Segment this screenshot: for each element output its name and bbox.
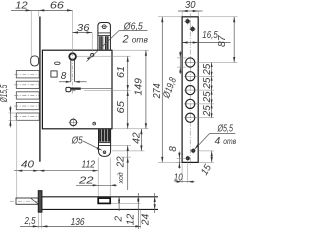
screw hole top A xyxy=(185,19,189,23)
bolt pins x5 xyxy=(16,71,39,121)
body side top line xyxy=(42,196,158,198)
dim 36 xyxy=(73,32,93,34)
svg-text:136: 136 xyxy=(71,217,85,228)
oval slot xyxy=(55,62,61,65)
svg-text:149: 149 xyxy=(134,78,145,96)
big holes x5 xyxy=(186,58,195,122)
dim 136 and 2,5 line xyxy=(20,225,141,227)
screw hole top B xyxy=(190,27,194,31)
svg-text:2: 2 xyxy=(114,216,125,223)
dim 65 xyxy=(127,91,129,129)
svg-text:25: 25 xyxy=(202,91,213,103)
svg-text:12: 12 xyxy=(15,0,28,11)
small screw hole xyxy=(93,122,96,125)
dim 12 side xyxy=(137,193,139,229)
dim 42 xyxy=(112,150,145,152)
svg-text:отв: отв xyxy=(223,137,236,146)
dim 12 and 66 top line xyxy=(11,9,73,11)
dim D19,8 xyxy=(177,57,186,59)
dim 40 xyxy=(14,170,39,172)
plate crossline and 16,5 shelf xyxy=(182,42,230,44)
faceplate side xyxy=(38,191,42,213)
slot bottom ext xyxy=(111,202,141,204)
keyhole lever slot xyxy=(66,87,71,91)
ext pin tip xyxy=(30,10,32,56)
bottom hole xyxy=(70,119,77,126)
dim 274 xyxy=(158,16,182,18)
svg-text:8: 8 xyxy=(61,71,67,82)
svg-text:112: 112 xyxy=(82,159,96,170)
svg-text:ход: ход xyxy=(116,172,125,184)
svg-text:10: 10 xyxy=(174,173,183,184)
body side bottom line xyxy=(42,208,158,210)
svg-text:16,5: 16,5 xyxy=(202,30,218,41)
dim 112 xyxy=(39,170,98,172)
channel width arrows xyxy=(59,81,71,83)
dim 2 side (slot depth) xyxy=(118,197,120,211)
latch band lines xyxy=(98,32,111,34)
screw hole bottom C xyxy=(191,149,195,153)
plate centerline xyxy=(189,14,191,166)
screw hole bottom D xyxy=(186,156,190,160)
dim 61 xyxy=(77,55,131,57)
svg-text:66: 66 xyxy=(50,0,65,11)
dim 30 xyxy=(181,11,183,16)
svg-text:61: 61 xyxy=(116,66,127,78)
latch springs xyxy=(99,36,103,49)
svg-text:36: 36 xyxy=(77,23,90,34)
pin centerlines xyxy=(14,74,39,116)
ext faceplate top xyxy=(38,10,40,16)
dim 10 xyxy=(181,164,183,184)
svg-text:87: 87 xyxy=(217,35,228,47)
dim D15,5 xyxy=(9,112,18,114)
square hole 8mm xyxy=(51,71,57,77)
svg-text:274: 274 xyxy=(152,83,163,99)
svg-text:40: 40 xyxy=(21,159,35,170)
dim 22 bottom view xyxy=(76,184,117,186)
dim hod 22 xyxy=(111,144,131,146)
svg-text:42: 42 xyxy=(132,132,143,144)
cylinder hole xyxy=(69,53,76,60)
lock body xyxy=(42,50,112,129)
svg-text:25: 25 xyxy=(202,105,213,117)
svg-text:25: 25 xyxy=(202,63,213,75)
latch slot side xyxy=(98,198,110,203)
svg-text:4: 4 xyxy=(215,136,221,147)
cylinder channel xyxy=(70,59,72,82)
svg-text:Ø5: Ø5 xyxy=(71,136,83,147)
pin side xyxy=(16,198,38,204)
svg-text:Ø5,5: Ø5,5 xyxy=(217,124,234,135)
dim 24 side xyxy=(154,193,156,213)
svg-text:25: 25 xyxy=(202,77,213,89)
faceplate (front view) xyxy=(39,17,41,162)
strike plate xyxy=(182,17,198,163)
ext cylinder xyxy=(72,10,74,53)
svg-text:22: 22 xyxy=(116,156,127,168)
svg-text:Ø15,5: Ø15,5 xyxy=(0,84,10,102)
svg-text:2 отв: 2 отв xyxy=(122,33,149,45)
dim 8 plate xyxy=(177,157,187,159)
lever arm line xyxy=(81,88,112,90)
latch bolt top xyxy=(98,23,111,51)
dim chain 25x4 xyxy=(196,75,214,77)
svg-text:8: 8 xyxy=(168,146,179,152)
svg-text:2,5: 2,5 xyxy=(24,216,36,227)
dim 15 xyxy=(198,150,214,152)
svg-text:30: 30 xyxy=(185,0,196,11)
latch screw xyxy=(102,25,106,29)
svg-text:24: 24 xyxy=(141,213,152,226)
dim 149 xyxy=(113,49,149,51)
dim 87 xyxy=(200,16,238,18)
svg-text:12: 12 xyxy=(125,213,136,225)
svg-text:22: 22 xyxy=(78,175,94,186)
aux deadbolt bottom xyxy=(99,129,110,141)
svg-text:65: 65 xyxy=(116,101,127,114)
aux oval pin xyxy=(31,56,39,66)
